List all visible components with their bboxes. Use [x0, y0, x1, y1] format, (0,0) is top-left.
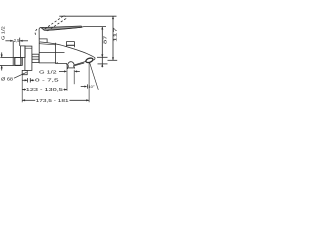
tick line nut top extended — [0, 56, 13, 58]
far-left vertical dimension with outside arrows — [1, 52, 3, 70]
spout underside double lines to aerator — [75, 61, 86, 65]
extension line from 2,5 down (union rear face) — [19, 38, 21, 46]
dimension 87 (vertical) — [97, 27, 108, 68]
wire wall line — [12, 41, 14, 58]
dimension row 0 - 7,5 — [22, 78, 34, 82]
lever tip reference line (87) — [82, 26, 106, 29]
svg-text:0 - 7,5: 0 - 7,5 — [35, 77, 60, 82]
extension line dome right x=74.2 — [73, 70, 75, 84]
dimension 2,5 — [5, 40, 28, 42]
svg-text:G 1/2: G 1/2 — [1, 25, 6, 40]
aerator ring — [85, 57, 93, 63]
escutcheon C1 — [25, 46, 32, 70]
extension line aerator x=89.1 — [88, 63, 90, 103]
raised lever (dashed) — [35, 16, 66, 36]
lower outlet block E below escutcheon — [22, 70, 27, 74]
svg-text:2,5: 2,5 — [14, 38, 20, 43]
svg-text:123 - 130,5: 123 - 130,5 — [26, 87, 64, 92]
lever handle base — [39, 28, 44, 42]
arrow for G 1/2 — [59, 70, 80, 72]
svg-text:117: 117 — [112, 26, 117, 42]
svg-text:173,5 - 181: 173,5 - 181 — [36, 98, 70, 103]
diverter knob — [66, 41, 74, 47]
dimension row 123 - 130,5 — [22, 89, 67, 91]
svg-text:10°: 10° — [88, 85, 95, 89]
svg-text:Ø 68: Ø 68 — [1, 76, 14, 81]
base bottom step — [39, 39, 47, 42]
leader for Ø 68 — [14, 72, 27, 78]
body mid seam line — [39, 52, 64, 54]
raised lever heel (dashed arc) — [35, 29, 37, 36]
mixer body outline — [39, 41, 74, 65]
body top edge curving to spout tip — [39, 42, 95, 58]
shower hose stub below body — [67, 65, 74, 69]
blade underside mid line — [47, 27, 82, 30]
dimension 117 (vertical) — [108, 16, 118, 60]
small dimension 10° near spout tip — [81, 84, 88, 88]
ribbed sleeve D — [32, 54, 39, 62]
body top chamfer line — [39, 44, 55, 45]
extension line left reference x=22.2 — [21, 75, 23, 103]
extension line dome left x=67 — [66, 66, 68, 91]
small dash right of seam — [57, 62, 58, 64]
top reference line (117) — [59, 15, 116, 17]
spout tip hook — [93, 58, 95, 61]
diagonal extension (tilted spout) — [90, 63, 99, 90]
union nut block A at wall — [13, 57, 22, 65]
lever blade (closed position) — [41, 26, 82, 30]
tick line nut bottom extended — [0, 65, 13, 67]
svg-text:87: 87 — [103, 34, 108, 44]
svg-text:G 1/2: G 1/2 — [39, 69, 58, 74]
vertical seam — [55, 43, 57, 64]
dimension row 173,5 - 181 — [22, 99, 89, 101]
union connector block B — [20, 46, 25, 58]
